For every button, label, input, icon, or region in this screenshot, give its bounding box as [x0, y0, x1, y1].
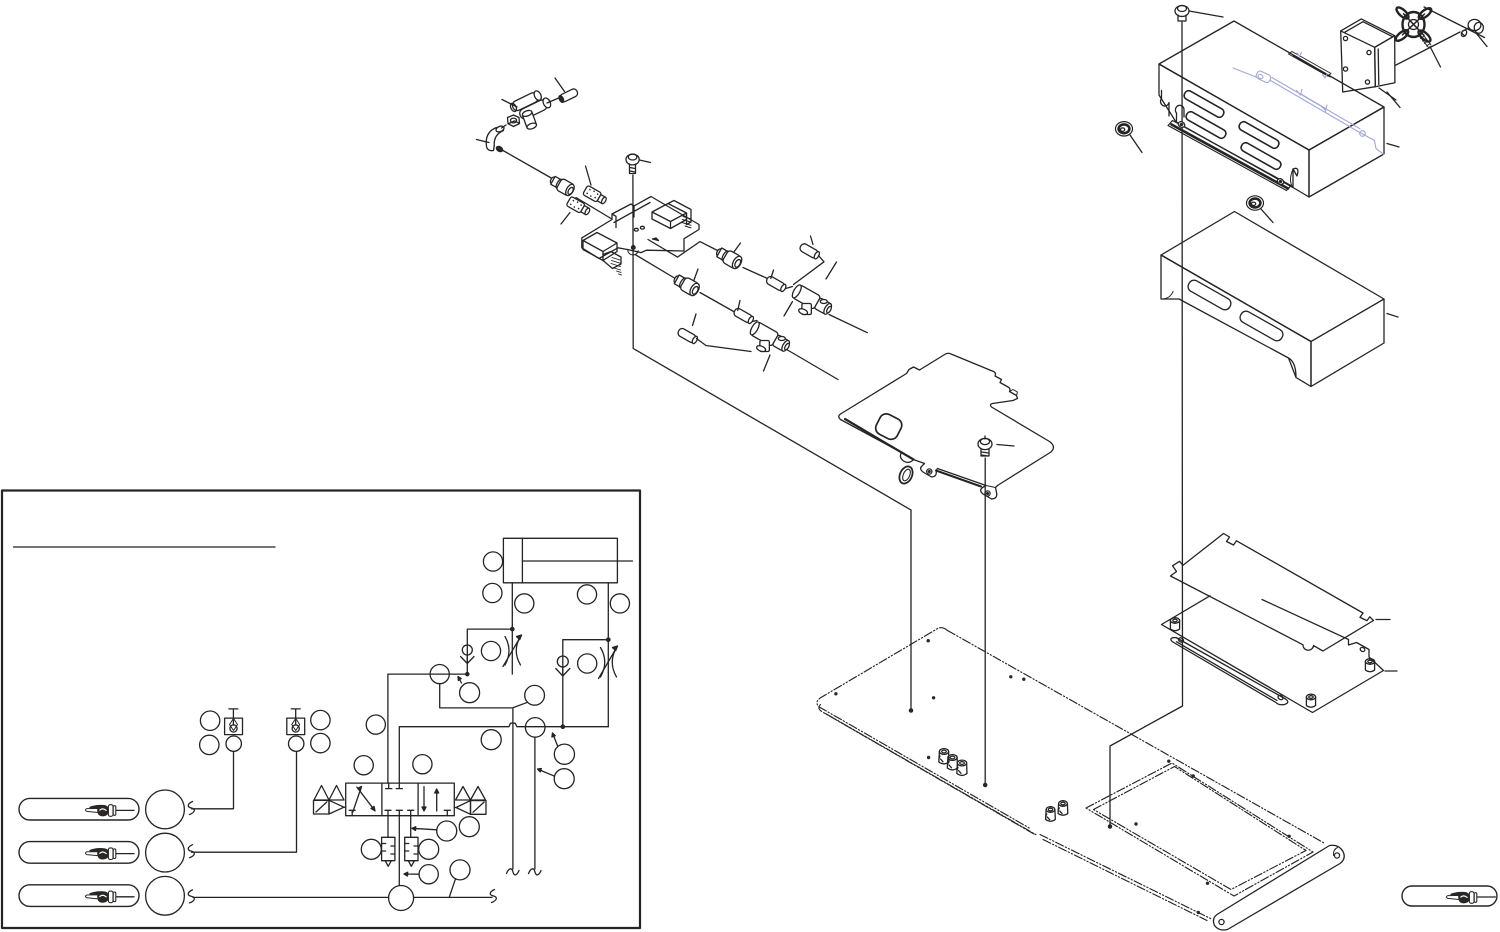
- leader (T-fitting E bottom): [764, 355, 771, 371]
- leader (coupler C): [694, 269, 698, 280]
- grommet 1: [1116, 122, 1133, 136]
- P supply line from valve: [398, 816, 400, 898]
- screw (manifold): [626, 154, 639, 174]
- solenoid valve (lower): [583, 233, 622, 275]
- break mark pill 3: [188, 890, 194, 903]
- flow control (left): [503, 635, 522, 667]
- oval foot ring: [897, 464, 915, 485]
- balloon on tube B: [525, 718, 545, 738]
- break mark pill 2: [188, 845, 194, 858]
- table top (phantom outline): [817, 628, 1325, 921]
- plate tab hole: [1359, 647, 1365, 653]
- standoff screw 1: [1170, 618, 1179, 631]
- control box top face: [1159, 21, 1384, 150]
- tube drop from balloon A: [440, 684, 513, 869]
- T-fitting B: [785, 283, 834, 326]
- balloon near drop corner: [525, 685, 545, 705]
- cylinder left port line with branch: [467, 583, 512, 674]
- bracket foot hole 2: [985, 491, 990, 496]
- balloon refs (flow controls): [481, 641, 500, 660]
- tube A from valve: [388, 674, 467, 783]
- hand label pill 3: [19, 885, 139, 907]
- control box right face: [1309, 107, 1384, 197]
- balloon pointing at P line: [419, 865, 438, 884]
- muffler 1: [583, 185, 608, 206]
- leader metal plate: [1385, 670, 1397, 672]
- air line elbow to coupler: [503, 151, 553, 180]
- balloon refs (cylinder area): [483, 552, 502, 571]
- coupler C: [671, 272, 701, 297]
- small tube (top): [558, 88, 579, 104]
- balloon near tube A drop: [460, 683, 480, 703]
- cylinder right port line with branch: [563, 583, 609, 727]
- tube B from valve: [399, 723, 608, 783]
- nut spacer 1: [939, 749, 949, 764]
- crossed arrows left section: [353, 787, 362, 813]
- port T marks: [386, 783, 392, 789]
- 5-port solenoid valve body: [346, 783, 455, 816]
- coupler A: [714, 245, 744, 270]
- leader line from screw down to table: [1110, 22, 1183, 825]
- coupler fitting (air inlet): [548, 174, 576, 198]
- balloon refs (switch 2): [311, 710, 330, 729]
- standoff screw 2: [1365, 659, 1374, 672]
- fan leader: [1424, 7, 1485, 38]
- break mark: [529, 869, 542, 875]
- bracket foot hole 1: [927, 469, 932, 474]
- balloon right of drop line (upper): [554, 744, 574, 764]
- hand icon 3: [85, 891, 115, 903]
- control box front face: [1159, 64, 1309, 197]
- leader from screw: [1189, 11, 1223, 17]
- leader (T-fitting B): [826, 262, 837, 279]
- balloon upper right: [459, 817, 479, 837]
- leader (tube B1): [771, 270, 774, 279]
- pressure switch 2: [287, 709, 305, 735]
- screw (control box top): [1175, 6, 1189, 22]
- circuit diagram frame: [2, 491, 640, 929]
- fan shaft pin: [1419, 34, 1441, 67]
- air path 2 (manifold to end): [635, 255, 838, 380]
- balloon pill 3: [146, 876, 185, 915]
- supply line end break: [490, 890, 496, 903]
- leader cover box: [1387, 314, 1398, 318]
- T-fitting E: [743, 320, 792, 363]
- leader insulation sheet: [1376, 619, 1390, 621]
- leader from manifold screw: [640, 160, 651, 163]
- balloon refs (switch 1): [200, 711, 219, 730]
- air path 1 (manifold to end): [648, 240, 867, 333]
- cover slot B: [1238, 309, 1285, 343]
- break mark: [507, 869, 520, 875]
- balloon pill 2: [146, 833, 185, 872]
- cover slot A: [1186, 278, 1233, 312]
- leader (muffler 2): [561, 213, 570, 225]
- valve mounting bracket plate: [839, 353, 1054, 499]
- axis line between valve and tube: [547, 97, 561, 103]
- screw (bracket): [978, 436, 992, 456]
- title underline: [14, 546, 276, 548]
- leader (muffler 1): [586, 166, 592, 185]
- balloon on supply line: [389, 886, 414, 911]
- port cylinder: [522, 109, 538, 130]
- tube B1: [765, 275, 787, 292]
- hand icon (bottom right): [1446, 892, 1476, 904]
- leader from bracket screw: [997, 445, 1014, 447]
- solenoid valve (upper): [652, 201, 691, 229]
- cover box top face: [1161, 212, 1384, 342]
- louver slot 2: [1185, 110, 1228, 139]
- balloon pill 1: [146, 790, 185, 829]
- leader line manifold screw to table: [633, 175, 911, 510]
- louver slot 3: [1238, 120, 1281, 149]
- straight arrows right section: [422, 787, 426, 811]
- break mark pill 1: [188, 802, 194, 815]
- air supply line: [193, 896, 492, 898]
- balloon refs (valve surroundings): [366, 715, 385, 734]
- leaders from transformer box: [1379, 88, 1396, 100]
- check valve (left): [461, 645, 474, 664]
- standoff screw 3: [1306, 694, 1315, 707]
- air cylinder: [503, 538, 632, 583]
- elbow fitting: [486, 125, 505, 153]
- pressure regulator (left): [382, 816, 395, 867]
- table inner cutout: [1086, 763, 1313, 896]
- tube G + link: [799, 242, 821, 259]
- transformer box: [1341, 19, 1395, 92]
- hand valve assembly (top-left): [508, 87, 553, 130]
- bolt: [1460, 19, 1483, 37]
- leader line screw to table: [984, 458, 986, 784]
- hand icon 2: [85, 848, 115, 860]
- nut spacer 2: [947, 755, 957, 770]
- reinforcement bar on plate: [1171, 637, 1288, 705]
- leader (T-fitting E top): [784, 302, 793, 317]
- grommet 2: [1247, 196, 1264, 210]
- hand label pill 2: [19, 842, 139, 864]
- hook cutouts on left face: [1161, 91, 1169, 117]
- insulation sheet: [1171, 534, 1374, 652]
- leader (coupler A): [734, 243, 741, 253]
- manifold plate: [582, 197, 699, 259]
- table hinge bar: [1213, 845, 1344, 930]
- flow control (right): [599, 646, 618, 679]
- louver slot 4: [1240, 141, 1283, 170]
- nut spacer 5: [1058, 801, 1068, 816]
- louver slot 1: [1183, 89, 1283, 170]
- pressure switch 1: [225, 709, 243, 735]
- axis line through mufflers to manifold: [576, 198, 611, 219]
- hand label pill (bottom right): [1402, 886, 1497, 906]
- wire harness (blue): [1233, 53, 1384, 155]
- tube F + link: [677, 327, 699, 344]
- bracket tab detail: [1010, 390, 1018, 396]
- leader on control box right face: [1387, 144, 1399, 148]
- hex nut: [508, 115, 520, 127]
- cover box right face: [1311, 299, 1384, 387]
- balloon (regulator right): [419, 839, 439, 859]
- leader (tube): [555, 78, 565, 92]
- cover box front face: [1161, 255, 1311, 387]
- exhaust triangles (left): [314, 786, 346, 815]
- bolt axis line: [1395, 32, 1460, 66]
- hand icon 1: [85, 805, 115, 817]
- leader (elbow): [477, 140, 490, 143]
- switch 1 pilot line to pill: [192, 751, 234, 808]
- balloon (regulator left): [361, 839, 381, 859]
- leader (tube D): [738, 301, 740, 311]
- pressure regulator (right): [405, 816, 418, 867]
- mounting rail (dark) on box front: [1168, 121, 1291, 191]
- balloon right of drop line (lower): [554, 769, 574, 789]
- axis hex to elbow: [502, 125, 507, 128]
- hand label pill 1: [19, 798, 139, 820]
- balloon pointing at supply end: [450, 860, 470, 880]
- tube D: [733, 307, 755, 324]
- connector strip on top face: [1289, 52, 1332, 77]
- balloon on tube A: [430, 665, 449, 684]
- nut spacer 3: [957, 760, 967, 775]
- exhaust triangles (right): [454, 787, 486, 815]
- leader (valve): [502, 100, 517, 108]
- check valve (right): [556, 656, 570, 676]
- muffler 2: [566, 196, 591, 217]
- switch 2 pilot line to pill: [192, 751, 297, 852]
- nut spacer 4: [1046, 807, 1056, 822]
- metal plate: [1162, 596, 1384, 713]
- balloon pointing at right regulator stem: [437, 821, 457, 841]
- table holes: [834, 639, 1291, 914]
- tube drop from balloon B: [534, 737, 536, 869]
- leader line (bracket left foot to table): [910, 510, 912, 710]
- fan knob: [1394, 6, 1433, 44]
- rounded square hole: [873, 411, 904, 441]
